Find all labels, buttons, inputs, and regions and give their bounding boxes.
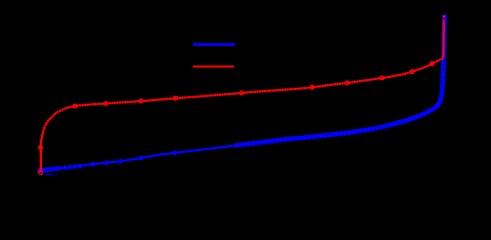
blue curve markers [37,16,447,173]
blue end marker (top right) [442,14,447,19]
blue curve line [39,16,444,171]
faint blue baseline segment near origin [41,173,53,176]
red curve ring markers [39,62,434,175]
legend blue line [193,43,235,46]
red curve steep left solid segment [41,130,44,172]
red curve bead markers [39,18,445,173]
legend red line [193,65,234,67]
red end dot (top right, over blue marker) [443,15,446,18]
red curve steep right solid segment [442,20,444,59]
